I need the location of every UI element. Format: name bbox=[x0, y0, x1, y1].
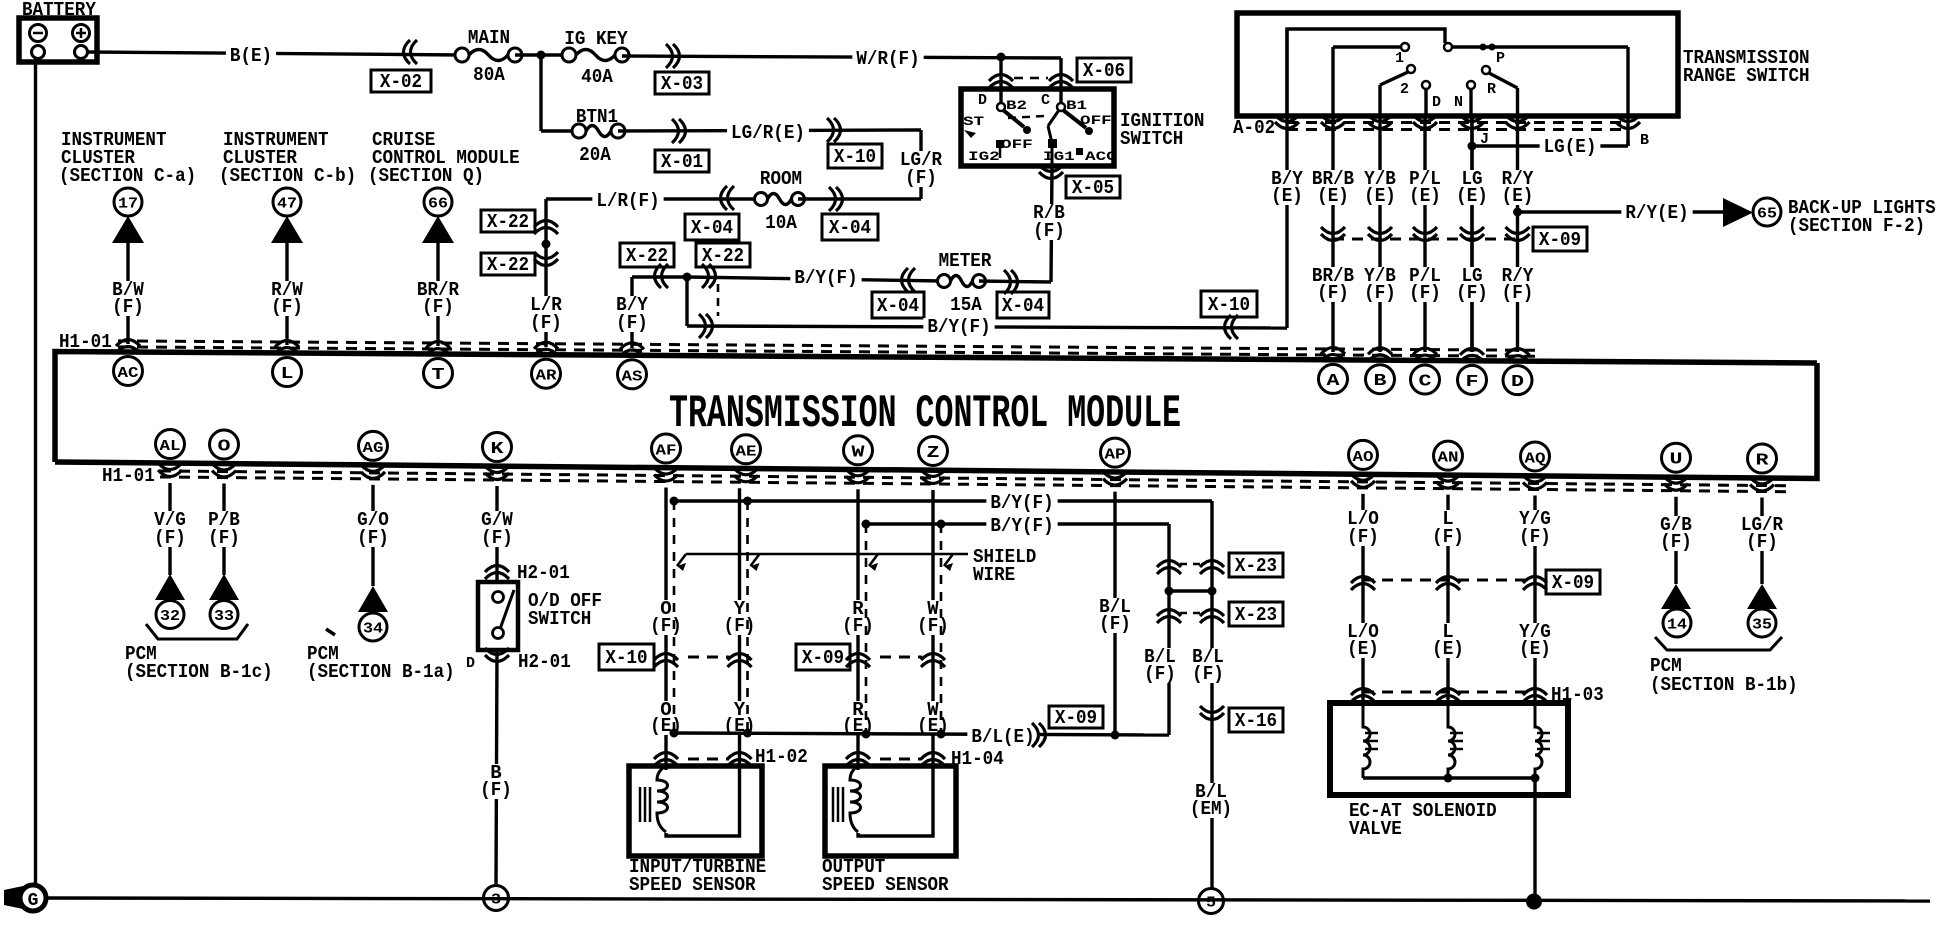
fuse MAIN 80A bbox=[455, 48, 469, 62]
svg-text:(E): (E) bbox=[1364, 185, 1396, 207]
svg-text:(F): (F) bbox=[1347, 526, 1379, 548]
svg-text:33: 33 bbox=[214, 608, 234, 625]
svg-text:(E): (E) bbox=[1519, 638, 1551, 660]
wire B/Y(F) shield drain upper bbox=[674, 499, 1212, 502]
svg-text:(F): (F) bbox=[1502, 282, 1534, 304]
connector X-22 upper bbox=[534, 221, 558, 235]
svg-text:RANGE SWITCH: RANGE SWITCH bbox=[1683, 65, 1810, 87]
svg-text:AN: AN bbox=[1438, 450, 1459, 467]
svg-text:X-05: X-05 bbox=[1072, 177, 1114, 199]
wire L/R column to AR bbox=[544, 199, 547, 347]
svg-text:80A: 80A bbox=[473, 64, 505, 86]
svg-text:(SECTION C-b): (SECTION C-b) bbox=[219, 165, 356, 187]
svg-text:Z: Z bbox=[927, 444, 940, 463]
wire P/B (F) O to PCM 33 bbox=[222, 484, 225, 575]
svg-text:SPEED SENSOR: SPEED SENSOR bbox=[822, 874, 949, 896]
wire / junction to IG KEY bbox=[515, 53, 569, 56]
svg-text:X-06: X-06 bbox=[1083, 60, 1125, 82]
terminal 66 cruise control bbox=[424, 188, 452, 216]
svg-text:ROOM: ROOM bbox=[760, 168, 802, 190]
svg-text:(EM): (EM) bbox=[1190, 798, 1232, 820]
svg-text:X-09: X-09 bbox=[1055, 707, 1097, 729]
terminal 3 bbox=[484, 886, 509, 911]
svg-text:X-09: X-09 bbox=[1539, 229, 1581, 251]
svg-text:H2-01: H2-01 bbox=[518, 651, 571, 673]
shield wire dashed Y bbox=[746, 501, 749, 733]
wire Y/G (F) from AQ bbox=[1533, 495, 1536, 703]
svg-text:AQ: AQ bbox=[1525, 450, 1546, 467]
svg-text:(F): (F) bbox=[616, 312, 648, 334]
connector row X-09 range bbox=[1333, 238, 1517, 241]
junction tie between drains bbox=[1165, 587, 1174, 596]
connector X-04 left bbox=[721, 186, 735, 210]
wire R/B (F) bbox=[1029, 204, 1069, 240]
svg-text:X-04: X-04 bbox=[1002, 295, 1044, 317]
svg-text:OFF: OFF bbox=[1001, 137, 1033, 152]
svg-text:(F): (F) bbox=[1519, 526, 1551, 548]
svg-text:OFF: OFF bbox=[1080, 113, 1112, 128]
svg-text:R: R bbox=[1756, 451, 1770, 470]
arrow PCM 33 bbox=[209, 574, 239, 600]
svg-text:B/Y(F): B/Y(F) bbox=[794, 267, 857, 289]
svg-text:B(E): B(E) bbox=[230, 45, 272, 67]
svg-text:(SECTION F-2): (SECTION F-2) bbox=[1788, 215, 1925, 237]
connector X-16 bbox=[1200, 706, 1224, 720]
svg-text:H1-01: H1-01 bbox=[102, 465, 155, 487]
connector X-09 EC-AT bbox=[1363, 579, 1535, 582]
connector X-04 right bbox=[798, 197, 921, 200]
svg-text:15A: 15A bbox=[950, 294, 982, 316]
wire B/Y(F) shield drain lower bbox=[866, 522, 1169, 525]
wire B/Y drain right column bbox=[1210, 501, 1213, 889]
wire LG/R(E) bbox=[618, 130, 921, 131]
input/turbine speed sensor box bbox=[629, 766, 762, 856]
svg-text:(E): (E) bbox=[1432, 638, 1464, 660]
solenoid bus bbox=[1363, 776, 1535, 779]
svg-text:B/Y(F): B/Y(F) bbox=[990, 492, 1053, 514]
wire R (F) from W bbox=[856, 489, 859, 747]
svg-text:X-02: X-02 bbox=[380, 71, 422, 93]
svg-text:(F): (F) bbox=[112, 296, 144, 318]
fuse METER 15A bbox=[938, 275, 951, 288]
shield wire dashed R bbox=[865, 524, 868, 733]
O/D OFF switch S1 bbox=[478, 582, 518, 650]
svg-text:AR: AR bbox=[536, 368, 557, 385]
svg-text:AE: AE bbox=[736, 443, 757, 460]
wire W/R(F) to ignition switch bbox=[622, 56, 1061, 58]
svg-text:35: 35 bbox=[1752, 617, 1772, 634]
svg-text:(SECTION B-1a): (SECTION B-1a) bbox=[307, 661, 455, 683]
svg-text:(E): (E) bbox=[1317, 185, 1349, 207]
svg-text:X-09: X-09 bbox=[802, 647, 844, 669]
range switch pole wire bbox=[1287, 29, 1445, 116]
svg-text:(F): (F) bbox=[530, 312, 562, 334]
svg-text:32: 32 bbox=[160, 608, 180, 625]
svg-text:40A: 40A bbox=[581, 66, 613, 88]
connector X-10 sensors bbox=[599, 644, 654, 670]
svg-text:(SECTION B-1c): (SECTION B-1c) bbox=[125, 661, 273, 683]
arrow to cruise control module bbox=[422, 216, 454, 243]
TCM bottom terminals bbox=[156, 430, 185, 459]
wire LG/R (F) from R bbox=[1760, 497, 1763, 584]
svg-text:5: 5 bbox=[1206, 895, 1216, 912]
svg-text:J: J bbox=[1480, 131, 1489, 148]
svg-text:17: 17 bbox=[118, 196, 138, 213]
wire LG/R (F) down bbox=[919, 130, 922, 199]
svg-text:SWITCH: SWITCH bbox=[1120, 128, 1183, 150]
connector X-03 bbox=[666, 44, 680, 68]
arrow to back-up lights bbox=[1723, 198, 1753, 227]
svg-text:(F): (F) bbox=[917, 615, 949, 637]
svg-text:X-10: X-10 bbox=[834, 146, 876, 168]
wire Y (F) from AE bbox=[738, 488, 741, 747]
connector H1-04 bbox=[846, 753, 870, 767]
svg-text:AF: AF bbox=[656, 443, 677, 460]
transmission control module box bbox=[55, 352, 1817, 463]
svg-text:(E): (E) bbox=[1409, 185, 1441, 207]
svg-text:ACC: ACC bbox=[1085, 149, 1117, 164]
svg-text:BTN1: BTN1 bbox=[576, 106, 618, 128]
svg-text:X-22: X-22 bbox=[487, 211, 529, 233]
svg-text:(F): (F) bbox=[1660, 531, 1692, 553]
svg-text:AS: AS bbox=[622, 368, 643, 385]
svg-text:C: C bbox=[1041, 92, 1050, 109]
svg-text:X-22: X-22 bbox=[487, 254, 529, 276]
svg-text:B2: B2 bbox=[1006, 98, 1027, 113]
wire L/R(F) room fuse line bbox=[546, 197, 761, 200]
svg-text:LG/R(E): LG/R(E) bbox=[731, 122, 805, 144]
svg-text:P: P bbox=[1496, 50, 1505, 67]
svg-text:(F): (F) bbox=[1364, 282, 1396, 304]
arrow PCM 34 bbox=[358, 586, 388, 612]
svg-text:LG(E): LG(E) bbox=[1544, 136, 1597, 158]
battery ground wire bbox=[34, 58, 37, 886]
terminal 65 back-up lights bbox=[1753, 198, 1781, 226]
contact P bbox=[1482, 66, 1490, 74]
svg-text:W: W bbox=[852, 443, 866, 462]
battery bbox=[19, 18, 97, 62]
svg-text:B: B bbox=[1640, 132, 1649, 149]
svg-text:WIRE: WIRE bbox=[973, 564, 1015, 586]
wire labels sensor (E) bbox=[646, 701, 686, 735]
svg-text:66: 66 bbox=[428, 196, 448, 213]
wire W (F) from Z bbox=[931, 490, 934, 747]
svg-text:AG: AG bbox=[363, 440, 384, 457]
wire LG(E) jumper bbox=[1472, 144, 1628, 147]
wire L/R (F) label bbox=[526, 296, 566, 332]
arrow to instrument cluster C-a bbox=[112, 216, 144, 243]
wire BR/R (F) bbox=[436, 243, 439, 346]
contact 1 bbox=[1401, 43, 1409, 51]
wire R/Y(E) to back-up lights bbox=[1513, 208, 1522, 217]
svg-text:C: C bbox=[1419, 373, 1432, 392]
connector X-02 bbox=[404, 40, 418, 64]
svg-text:2: 2 bbox=[1400, 81, 1409, 98]
wire B (F) to ground terminal 3 bbox=[496, 650, 497, 886]
svg-text:(E): (E) bbox=[1347, 638, 1379, 660]
connector X-04 meter left bbox=[902, 268, 916, 292]
svg-text:A-02: A-02 bbox=[1233, 117, 1275, 139]
svg-text:(SECTION Q): (SECTION Q) bbox=[368, 165, 484, 187]
output sensor coil bbox=[832, 787, 835, 822]
wire labels (E) row bbox=[1267, 170, 1307, 205]
svg-text:B: B bbox=[1374, 372, 1387, 391]
svg-text:L/R(F): L/R(F) bbox=[596, 190, 659, 212]
svg-text:(F): (F) bbox=[422, 296, 454, 318]
wire labels B/L (F) pair bbox=[1140, 648, 1180, 683]
svg-text:U: U bbox=[1670, 451, 1683, 470]
svg-text:14: 14 bbox=[1667, 617, 1687, 634]
wire L/O (F) from AO bbox=[1361, 494, 1364, 703]
wire V/G (F) AL to PCM 32 bbox=[168, 483, 171, 575]
svg-text:(F): (F) bbox=[650, 615, 682, 637]
svg-text:IG1: IG1 bbox=[1043, 149, 1075, 164]
connector H2-01 upper bbox=[485, 566, 509, 580]
connector H1-02 bbox=[654, 753, 678, 767]
svg-text:(F): (F) bbox=[842, 615, 874, 637]
connector X-09 on B/L(E) bbox=[1032, 723, 1046, 747]
svg-text:AO: AO bbox=[1353, 449, 1374, 466]
svg-text:(F): (F) bbox=[1317, 282, 1349, 304]
svg-text:(F): (F) bbox=[480, 779, 512, 801]
PCM section B-1c brace bbox=[146, 624, 248, 639]
terminal 17 instrument cluster bbox=[114, 188, 142, 216]
arrow PCM 35 bbox=[1747, 584, 1777, 609]
wire B/W (F) bbox=[126, 243, 129, 344]
svg-text:D: D bbox=[1511, 373, 1524, 392]
fuse BTN1 20A bbox=[572, 124, 586, 138]
svg-text:AC: AC bbox=[118, 365, 139, 382]
svg-text:(F): (F) bbox=[1099, 613, 1131, 635]
wire G/O (F) AG to PCM 34 bbox=[371, 485, 374, 586]
contact N bbox=[1467, 81, 1475, 89]
H1-01 top chevrons bbox=[116, 339, 140, 353]
svg-text:X-22: X-22 bbox=[626, 245, 668, 267]
wire G/B (F) from U bbox=[1674, 497, 1677, 584]
contact 2 bbox=[1407, 65, 1415, 73]
connector X-09 sensors bbox=[796, 644, 850, 670]
wire B/Y(F) meter line bbox=[687, 277, 944, 281]
svg-text:(F): (F) bbox=[481, 527, 513, 549]
contact D bbox=[1422, 81, 1430, 89]
svg-text:47: 47 bbox=[277, 196, 297, 213]
svg-text:(E): (E) bbox=[1271, 185, 1303, 207]
svg-text:65: 65 bbox=[1757, 206, 1777, 223]
connector X-22 pair on B/Y wire bbox=[632, 275, 687, 278]
svg-text:H1-01: H1-01 bbox=[59, 331, 112, 353]
shield wire callout bbox=[686, 553, 968, 556]
wire into ignition switch B2 bbox=[999, 57, 1002, 107]
svg-text:(E): (E) bbox=[1502, 185, 1534, 207]
svg-text:(F): (F) bbox=[1432, 526, 1464, 548]
svg-text:X-01: X-01 bbox=[661, 151, 703, 173]
wire B/Y column to AS bbox=[630, 277, 633, 348]
svg-text:X-03: X-03 bbox=[661, 73, 703, 95]
connector X-10 right bbox=[1225, 315, 1239, 339]
svg-text:X-10: X-10 bbox=[1208, 294, 1250, 316]
svg-text:H2-01: H2-01 bbox=[517, 562, 570, 584]
connector X-22 lower bbox=[534, 252, 558, 266]
svg-text:AL: AL bbox=[160, 438, 181, 455]
wire G/W (F) K to O/D switch bbox=[495, 486, 498, 582]
svg-text:(F): (F) bbox=[724, 615, 756, 637]
arrow PCM 32 bbox=[155, 574, 185, 600]
connector X-06 ignition top bbox=[989, 75, 1013, 89]
svg-text:MAIN: MAIN bbox=[468, 27, 510, 49]
svg-text:X-10: X-10 bbox=[605, 647, 647, 669]
svg-text:20A: 20A bbox=[579, 144, 611, 166]
svg-text:IG KEY: IG KEY bbox=[564, 28, 628, 50]
svg-text:B/L(E): B/L(E) bbox=[971, 726, 1034, 748]
svg-text:(F): (F) bbox=[1409, 282, 1441, 304]
svg-text:L: L bbox=[281, 365, 294, 384]
svg-text:SPEED SENSOR: SPEED SENSOR bbox=[629, 874, 756, 896]
svg-text:34: 34 bbox=[363, 621, 383, 638]
arrow PCM 14 bbox=[1661, 584, 1691, 609]
svg-text:B1: B1 bbox=[1066, 98, 1087, 113]
svg-text:(F): (F) bbox=[1144, 663, 1176, 685]
solenoid coil 1 bbox=[1363, 703, 1370, 778]
svg-text:B/Y(F): B/Y(F) bbox=[990, 515, 1053, 537]
connector X-23 upper bbox=[1157, 561, 1181, 575]
svg-text:H1-04: H1-04 bbox=[951, 748, 1004, 770]
svg-text:(F): (F) bbox=[271, 296, 303, 318]
svg-text:TRANSMISSION CONTROL MODULE: TRANSMISSION CONTROL MODULE bbox=[669, 388, 1181, 440]
svg-text:F: F bbox=[1466, 373, 1479, 392]
wire R/W (F) bbox=[285, 243, 288, 345]
svg-text:(F): (F) bbox=[154, 527, 186, 549]
svg-text:1: 1 bbox=[1395, 50, 1404, 67]
svg-text:(F): (F) bbox=[905, 167, 937, 189]
connector X-01 bbox=[672, 119, 686, 143]
arrow to instrument cluster C-b bbox=[271, 216, 303, 243]
wire labels sensor (F) bbox=[646, 600, 686, 635]
EC-AT solenoid valve box bbox=[1330, 703, 1568, 795]
ground junction EC-AT bbox=[1526, 894, 1542, 910]
svg-text:ST: ST bbox=[963, 114, 984, 129]
svg-text:T: T bbox=[432, 366, 445, 385]
H1-01 bottom chevrons bbox=[158, 463, 182, 477]
svg-text:VALVE: VALVE bbox=[1349, 818, 1402, 840]
shield wire dashed O bbox=[673, 501, 676, 733]
range switch column wires E bbox=[1331, 116, 1334, 352]
terminal 5 bbox=[1199, 889, 1224, 914]
svg-text:AP: AP bbox=[1105, 447, 1126, 464]
connector H1-03 bbox=[1363, 691, 1535, 694]
svg-text:X-23: X-23 bbox=[1235, 604, 1277, 626]
wire labels (F) row right bbox=[1308, 267, 1358, 302]
svg-text:X-04: X-04 bbox=[691, 217, 733, 239]
wire labels (E) EC-AT bbox=[1343, 623, 1383, 658]
svg-text:A: A bbox=[1327, 372, 1341, 391]
svg-text:SWITCH: SWITCH bbox=[528, 608, 591, 630]
svg-text:X-04: X-04 bbox=[829, 217, 871, 239]
wire B(E) battery to MAIN fuse bbox=[87, 52, 462, 55]
svg-text:D: D bbox=[466, 655, 475, 672]
svg-text:(F): (F) bbox=[1456, 282, 1488, 304]
svg-text:(F): (F) bbox=[1192, 663, 1224, 685]
svg-text:N: N bbox=[1454, 94, 1463, 111]
svg-text:(F): (F) bbox=[208, 527, 240, 549]
wire O (F) from AF bbox=[664, 488, 667, 747]
connector X-04 meter right bbox=[979, 281, 1051, 282]
svg-text:IG2: IG2 bbox=[968, 149, 1000, 164]
wire B/L (EM) bbox=[1186, 783, 1236, 818]
svg-text:(F): (F) bbox=[1746, 531, 1778, 553]
svg-text:D: D bbox=[1432, 94, 1441, 111]
svg-text:G: G bbox=[28, 891, 39, 911]
transmission range switch box bbox=[1237, 13, 1678, 116]
svg-text:METER: METER bbox=[939, 250, 992, 272]
wire B/L (F) from AP bbox=[1113, 492, 1116, 735]
svg-text:X-09: X-09 bbox=[1552, 572, 1594, 594]
svg-text:R/Y(E): R/Y(E) bbox=[1625, 202, 1688, 224]
wire B/Y range switch column bbox=[1285, 29, 1288, 328]
svg-text:(F): (F) bbox=[1033, 220, 1065, 242]
shield wire dashed W bbox=[940, 524, 943, 733]
svg-text:(SECTION B-1b): (SECTION B-1b) bbox=[1650, 674, 1798, 696]
svg-text:X-04: X-04 bbox=[877, 295, 919, 317]
ground symbol G bbox=[4, 886, 23, 909]
wire B/L(E) ground line bbox=[674, 733, 1169, 735]
fuse IG KEY 40A bbox=[562, 48, 576, 62]
wire to fuse BTN1 bbox=[539, 55, 542, 131]
terminal 47 instrument cluster bbox=[273, 188, 301, 216]
fuse ROOM 10A bbox=[755, 193, 768, 206]
svg-text:R: R bbox=[1487, 81, 1496, 98]
ground rail bbox=[46, 898, 1930, 901]
wire L (F) from AN bbox=[1446, 495, 1449, 703]
wire Y/G to ground bbox=[1533, 778, 1536, 902]
svg-text:10A: 10A bbox=[765, 212, 797, 234]
svg-text:W/R(F): W/R(F) bbox=[856, 48, 919, 70]
svg-text:(SECTION C-a): (SECTION C-a) bbox=[59, 165, 196, 187]
TCM top terminals bbox=[114, 356, 143, 385]
svg-text:B/Y(F): B/Y(F) bbox=[927, 316, 990, 338]
svg-text:O: O bbox=[218, 438, 231, 457]
svg-text:X-23: X-23 bbox=[1235, 555, 1277, 577]
svg-text:BATTERY: BATTERY bbox=[22, 0, 96, 21]
ignition switch U1 box bbox=[961, 89, 1114, 166]
input sensor coil bbox=[639, 787, 642, 822]
connector X-23 lower bbox=[1157, 610, 1181, 624]
svg-text:K: K bbox=[491, 440, 505, 459]
svg-text:(F): (F) bbox=[357, 527, 389, 549]
svg-text:D: D bbox=[978, 92, 987, 109]
svg-text:(E): (E) bbox=[1456, 185, 1488, 207]
svg-text:X-16: X-16 bbox=[1235, 710, 1277, 732]
output speed sensor box bbox=[825, 766, 956, 856]
wire B/Y(F) long to X-10 bbox=[685, 277, 688, 326]
tick mark bbox=[326, 629, 335, 635]
PCM section B-1b brace bbox=[1655, 637, 1782, 650]
svg-text:X-22: X-22 bbox=[702, 245, 744, 267]
connector X-05 ignition bottom bbox=[1051, 166, 1052, 282]
junction AP on B/L(E) bbox=[1111, 731, 1120, 740]
wire into ignition switch B1 bbox=[1059, 58, 1062, 107]
connector X-10 bbox=[827, 118, 841, 142]
